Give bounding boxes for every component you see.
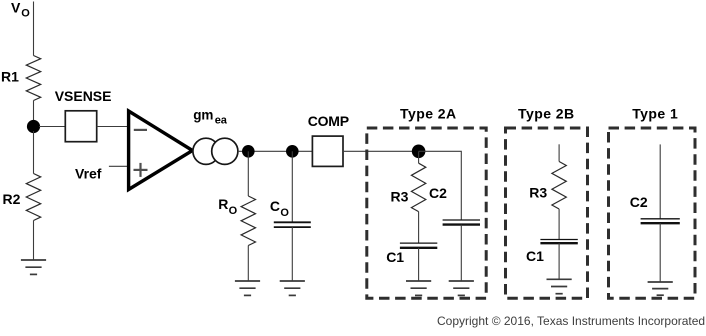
resistor R3 Type 2B [552,162,566,210]
wire Vref stub [109,165,129,167]
wire VSENSE to op-amp [97,126,129,128]
wire C2 to ground Type 1 [659,223,661,282]
svg-text:O: O [280,207,289,219]
svg-text:ea: ea [215,115,228,127]
wire CO to ground [291,227,293,281]
svg-text:C2: C2 [630,194,648,210]
wire node to C2 branch [419,151,462,220]
wire node to CO [291,151,293,222]
dashed box Type 2A [367,128,486,298]
svg-text:R: R [218,196,228,212]
ground below R2 [21,260,46,274]
ground below CO [280,281,305,295]
svg-text:COMP: COMP [308,113,349,129]
ground below C2 Type 2A [449,281,474,295]
wire R3 to C1 [418,212,420,244]
dashed box Type 1 [609,128,696,298]
node Type 2A input junction [412,145,426,159]
svg-text:O: O [21,7,30,19]
wire node to R3 [418,151,420,163]
node COMP junction 1 [242,145,255,158]
ground below C1 Type 2A [406,281,431,295]
wire C1 to ground [418,248,420,281]
svg-text:Vref: Vref [75,165,102,181]
svg-text:R3: R3 [529,185,547,201]
resistor R3 Type 2A [411,163,425,211]
wire node to R2 [33,131,35,174]
op-amp noninverting input marker [134,163,148,177]
svg-text:R1: R1 [1,69,19,85]
wire node to RO [247,151,249,196]
svg-text:O: O [229,205,238,217]
wire stub Type 2B input [558,144,560,161]
wire gm output to COMP block [238,150,313,152]
svg-text:C2: C2 [429,185,447,201]
wire C1 to ground Type 2B [558,243,560,279]
wire COMP to Type 2A network [343,150,419,152]
current source symbol gm output [193,138,238,164]
wire VO to R1 [33,2,35,56]
node feedback junction [27,120,40,133]
svg-text:R2: R2 [3,191,21,207]
ground below RO [235,281,260,295]
block COMP [312,136,343,166]
op-amp U1 gm error amplifier [129,111,193,190]
svg-text:VSENSE: VSENSE [55,88,112,104]
capacitor C2 Type 1 [641,219,680,223]
op-amp inverting input marker [134,129,147,131]
capacitor C1 Type 2B [540,240,577,244]
wire stub Type 1 input [659,144,661,218]
resistor R1 [26,56,40,101]
svg-text:C1: C1 [386,249,404,265]
capacitor CO [274,222,311,227]
ground Type 1 [648,282,673,295]
wire C2 to ground [460,225,462,281]
wire R1 to node [33,101,35,123]
wire R2 to ground [33,221,35,261]
svg-text:gm: gm [193,107,213,122]
wire RO to ground [247,246,249,282]
svg-text:Type 1: Type 1 [632,106,678,122]
svg-text:C1: C1 [526,248,544,264]
dashed box Type 2B [506,128,588,298]
node COMP junction 2 [286,145,299,158]
wire node to VSENSE [39,126,65,128]
resistor RO [241,196,255,246]
svg-text:Copyright © 2016, Texas Instru: Copyright © 2016, Texas Instruments Inco… [437,314,705,328]
svg-text:Type 2A: Type 2A [400,105,457,121]
resistor R2 [26,174,40,221]
svg-text:Type 2B: Type 2B [518,105,575,121]
svg-text:R3: R3 [391,188,409,204]
capacitor C1 Type 2A [400,243,437,248]
svg-text:V: V [11,0,21,15]
block VSENSE [65,111,96,142]
capacitor C2 Type 2A [443,220,480,225]
svg-text:C: C [270,198,280,214]
wire R3 to C1 Type 2B [558,209,560,240]
ground Type 2B [547,279,572,293]
